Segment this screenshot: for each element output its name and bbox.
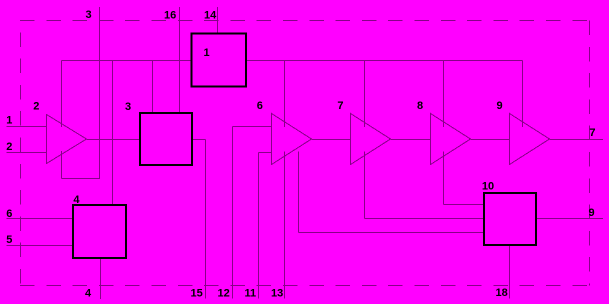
wire U6 bottom tap vertical to box 10 bbox=[298, 152, 300, 233]
svg-text:7: 7 bbox=[589, 127, 595, 139]
wire box 10 output to pin 9 bbox=[536, 218, 603, 220]
svg-text:11: 11 bbox=[245, 287, 257, 299]
amplifier U2 bbox=[47, 115, 87, 164]
svg-text:6: 6 bbox=[257, 100, 263, 112]
IC boundary dashed left bbox=[20, 21, 22, 286]
wire pin 11 to U6 input bbox=[259, 152, 272, 154]
wire pin 2 input bbox=[7, 152, 47, 154]
box U10 bbox=[484, 193, 536, 245]
svg-text:1: 1 bbox=[6, 115, 12, 127]
wire pin 14 vertical to box 1 bbox=[217, 7, 219, 33]
wire feedback vertical to U2 bottom edge bbox=[61, 151, 63, 179]
svg-text:3: 3 bbox=[86, 9, 92, 21]
amplifier U8 bbox=[431, 114, 471, 165]
wire U2 output to box 3 bbox=[87, 139, 141, 141]
wire pin 12 to U6 input bbox=[233, 126, 272, 128]
svg-text:16: 16 bbox=[164, 10, 176, 22]
wire bus right segment from box 1 bbox=[246, 60, 523, 62]
wire U7 bottom tap vertical to box 10 bbox=[364, 152, 366, 219]
wire bus corner down to U9 top edge bbox=[522, 61, 524, 128]
wire U8 bottom tap vertical to box 10 bbox=[443, 152, 445, 205]
svg-text:7: 7 bbox=[337, 100, 343, 112]
svg-text:12: 12 bbox=[218, 287, 230, 299]
svg-text:2: 2 bbox=[6, 141, 12, 153]
svg-text:15: 15 bbox=[191, 287, 203, 299]
wire bus left segment to box 1 bbox=[62, 60, 192, 62]
wire tap bus to box 3 top bbox=[152, 61, 154, 114]
wire U7 output to U8 bbox=[391, 139, 431, 141]
svg-text:4: 4 bbox=[73, 194, 80, 206]
box U3 bbox=[140, 113, 192, 165]
wire pin 3 vertical bbox=[99, 7, 101, 179]
wire pin 13 vertical from U6 bottom edge bbox=[284, 152, 286, 299]
wire U8 bottom tap horizontal to box 10 bbox=[444, 204, 485, 206]
svg-text:1: 1 bbox=[204, 47, 210, 59]
wire pin 5 input bbox=[7, 245, 73, 247]
svg-text:14: 14 bbox=[204, 10, 217, 22]
svg-text:9: 9 bbox=[589, 207, 595, 219]
wire U9 output to pin 7 bbox=[550, 139, 604, 141]
svg-text:8: 8 bbox=[417, 100, 423, 112]
wire feedback horizontal under U2 bbox=[62, 178, 100, 180]
wire pin 16 vertical to box 3 bbox=[179, 7, 181, 113]
IC boundary dashed right bbox=[589, 21, 591, 286]
wire box 10 bottom to pin 18 bbox=[509, 245, 511, 299]
wire U7 bottom tap horizontal to box 10 bbox=[365, 218, 485, 220]
wire U6 output to U7 bbox=[312, 139, 351, 141]
wire tap to U2 top edge bbox=[61, 61, 63, 128]
wire tap bus to U8 top edge bbox=[443, 61, 445, 128]
amplifier U9 bbox=[510, 114, 550, 165]
amplifier U7 bbox=[351, 114, 391, 165]
box U4 bbox=[73, 205, 126, 258]
svg-text:6: 6 bbox=[6, 208, 12, 220]
box U1 bbox=[192, 34, 247, 87]
svg-text:18: 18 bbox=[496, 287, 508, 299]
amplifier U6 bbox=[272, 114, 312, 165]
wire pin 11 vertical bbox=[258, 153, 260, 299]
wire tap bus to box 4 top bbox=[112, 61, 114, 206]
wire box 4 bottom to pin 4 bbox=[100, 259, 102, 300]
wire pin 15 vertical bbox=[205, 140, 207, 299]
svg-text:5: 5 bbox=[6, 234, 12, 246]
wire pin 6 input bbox=[7, 218, 73, 220]
wire U6 bottom tap horizontal to box 10 bbox=[299, 232, 485, 234]
svg-text:13: 13 bbox=[271, 287, 283, 299]
svg-text:4: 4 bbox=[85, 287, 92, 299]
wire tap bus to U6 top edge bbox=[284, 61, 286, 128]
svg-text:10: 10 bbox=[482, 181, 494, 193]
wire pin 1 input bbox=[7, 126, 47, 128]
IC boundary dashed bottom bbox=[20, 285, 590, 287]
wire tap bus to U7 top edge bbox=[364, 61, 366, 128]
wire U8 output to U9 bbox=[471, 139, 510, 141]
wire pin 12 vertical bbox=[232, 127, 234, 299]
wire box 3 output horizontal bbox=[192, 139, 206, 141]
svg-text:9: 9 bbox=[497, 100, 503, 112]
IC boundary dashed top bbox=[20, 20, 590, 22]
svg-text:2: 2 bbox=[33, 101, 39, 113]
svg-text:3: 3 bbox=[125, 101, 131, 113]
